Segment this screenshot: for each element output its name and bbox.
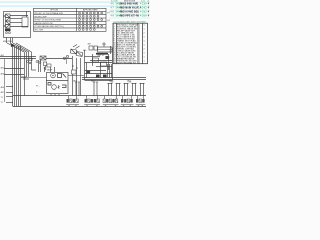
pump feed line 1: [50, 67, 52, 72]
svg-text:4WD KIT 4W: 4WD KIT 4W: [124, 1, 135, 3]
cv bus line 1: [85, 56, 101, 58]
highlight stripe right row 5: [109, 17, 150, 19]
wire left stub 3: [6, 96, 13, 98]
mid small valve cluster: [29, 58, 32, 61]
cv bus line 6: [85, 73, 113, 75]
wire right of block: [110, 46, 112, 54]
cv vertical 4: [86, 63, 88, 78]
svg-text:W70W : 4T700 W70 A-70WB: W70W : 4T700 W70 A-70WB: [34, 19, 61, 22]
parts list qty marks right col: [144, 24, 145, 62]
pilot valve box P1: [4, 12, 31, 38]
option table circles row 5: [79, 25, 103, 27]
valve circles below: [36, 61, 38, 63]
right feeder pair 4: [132, 83, 137, 96]
svg-text:1: 1: [144, 24, 145, 26]
svg-text:4B1: 4B1: [1, 55, 4, 57]
cluster circles: [66, 55, 68, 57]
wire center drop2: [76, 76, 78, 96]
pump dot: [52, 75, 53, 76]
svg-text:WITH PRE-HEAT KIT: WITH PRE-HEAT KIT: [117, 61, 137, 64]
relief valve RV1: [44, 62, 47, 70]
cv dark blob 2: [96, 75, 100, 78]
svg-text:4B8-P: 4B8-P: [47, 70, 53, 72]
svg-text:4-5 S46: 4-5 S46: [111, 1, 118, 3]
travel motor unit 1: [66, 96, 79, 106]
bundle L line 3: [16, 46, 18, 107]
revision list row 0 partial: [111, 1, 149, 3]
feeder lines 2: [94, 82, 97, 96]
wire pv vertical: [26, 11, 28, 17]
background sheet: [0, 0, 150, 110]
wire diagonal 3: [13, 43, 29, 52]
svg-text:4WD HI 4WD B(B): 4WD HI 4WD B(B): [120, 10, 140, 13]
pump circle: [51, 73, 56, 78]
cv left edge: [84, 50, 86, 80]
motor circle: [52, 85, 57, 90]
svg-text:4B9: 4B9: [88, 44, 91, 46]
travel motor unit 4: [121, 96, 134, 106]
wire center v1: [72, 56, 74, 70]
revision list row 4: [111, 14, 150, 17]
cv bus line 4: [96, 66, 112, 68]
travel motor unit 3: [103, 96, 119, 106]
pilot valve body blob: [5, 29, 11, 32]
wire pv out 1: [10, 15, 28, 17]
revision list row 2: [111, 6, 150, 9]
right feeder pair 2: [116, 83, 121, 96]
wire center h2: [46, 58, 72, 60]
svg-text:4-23(4: 4-23(4: [140, 3, 147, 5]
svg-text:WD-4W : 4T700 W70BA A 70W: WD-4W : 4T700 W70BA A 70W: [34, 12, 63, 15]
control valve manifold bar: [96, 53, 108, 55]
bundle L line 4: [18, 46, 20, 107]
feeder top ticks: [75, 81, 131, 83]
cv bus line 3: [85, 62, 113, 64]
pilot valve bottom circles: [6, 32, 8, 34]
wire center v3: [80, 58, 82, 76]
junction dot 2: [76, 67, 77, 68]
cv bus line 5: [85, 70, 107, 72]
mid cluster circle 2: [29, 62, 31, 64]
svg-text:T2: T2: [1, 102, 3, 104]
travel motor unit 5: [136, 96, 146, 106]
highlight stripe top 1: [0, 1, 150, 3]
junction blob: [11, 44, 15, 48]
wire left horiz 2: [0, 58, 36, 60]
bundle M jog 2: [23, 78, 29, 80]
cv sub valve 2: [101, 62, 107, 66]
svg-text:WD_70W: WD_70W: [34, 30, 43, 32]
junction dot 1: [72, 65, 73, 66]
wire right bus 2: [82, 79, 146, 81]
jog line to pump: [21, 77, 46, 79]
wire left stub 1: [6, 86, 13, 88]
revision list row 1: [111, 2, 150, 5]
small block mid: [72, 70, 77, 74]
svg-text:1: 1: [144, 56, 145, 58]
svg-text:T1: T1: [1, 97, 3, 99]
option table circles row 1: [79, 12, 103, 14]
wire pump to block: [68, 75, 85, 77]
svg-text:P1→: P1→: [36, 86, 40, 88]
option table circles row 2: [79, 15, 99, 17]
mid cluster circle 1: [27, 61, 29, 63]
wire box drop 1: [6, 38, 8, 44]
svg-text:2: 2: [144, 32, 145, 34]
wire left horiz 3: [4, 68, 24, 70]
svg-text:4-22: 4-22: [141, 1, 145, 3]
solenoid valve V2: [40, 56, 46, 60]
bundle M line 4: [31, 52, 33, 70]
bundle M line 3: [28, 52, 30, 77]
bundle M jog 1: [21, 76, 27, 78]
valve riser 1: [38, 60, 40, 72]
pilot sub box: [22, 17, 28, 27]
wire pv out 4: [10, 26, 28, 28]
option table circles row 6: [79, 29, 96, 31]
svg-text:4-25(3: 4-25(3: [140, 11, 147, 13]
wire left stub 2: [6, 92, 13, 94]
wire diagonal 2: [10, 43, 27, 52]
revision list row 3: [111, 10, 150, 13]
svg-text:4B3: 4B3: [1, 74, 4, 76]
svg-text:4WD PIPE KIT 4W: 4WD PIPE KIT 4W: [120, 14, 140, 17]
right feeder pair 1: [108, 83, 113, 96]
cv bottom edge: [85, 80, 113, 82]
svg-text:4B11: 4B11: [73, 81, 77, 83]
option table circles row 3: [79, 19, 103, 21]
svg-text:WD/WD-4WF: WD/WD-4WF: [34, 16, 47, 18]
parts list rows: [113, 23, 141, 64]
pilot valve spool stack: [6, 14, 11, 28]
highlight stripe top 2: [0, 5, 150, 7]
svg-text:1: 1: [144, 60, 145, 62]
filter marks: [48, 83, 51, 86]
pump side rect: [58, 74, 62, 78]
wire center drop3: [80, 76, 82, 96]
svg-text:4B7: 4B7: [1, 92, 4, 94]
wire left horiz 4: [4, 74, 24, 76]
bottom frame line: [13, 106, 146, 108]
valve riser 3: [44, 67, 46, 72]
left collector line: [4, 59, 6, 102]
wire right drop 1: [107, 64, 109, 78]
bundle L line 5: [20, 46, 22, 107]
pilot valve end port 2: [4, 25, 6, 27]
svg-text:1: 1: [144, 36, 145, 38]
pump mid line: [46, 80, 68, 82]
cv bus line 2: [90, 60, 112, 62]
cv dark blob 1: [87, 71, 91, 74]
motor zigzag: [58, 86, 59, 89]
valve bank inner line: [98, 49, 113, 51]
svg-text:T→: T→: [36, 92, 39, 94]
svg-text:4: 4: [148, 1, 149, 3]
center pilot cluster: [70, 45, 83, 57]
pump drains: [51, 94, 59, 96]
wire pv out 3: [10, 22, 22, 24]
wire pv out 2: [10, 18, 22, 20]
valve bank cell 2: [94, 46, 98, 50]
bundle L line 2: [14, 46, 16, 107]
bottom bus: [13, 95, 146, 97]
cv dark blob 3: [103, 75, 107, 78]
pump feed line 2: [54, 67, 56, 72]
wire right drop 2: [109, 64, 111, 78]
wire box drop 2: [10, 38, 12, 44]
svg-text:1: 1: [144, 28, 145, 30]
right feeder pair 3: [124, 83, 129, 96]
cv right edge: [112, 48, 114, 80]
option table row texts: [34, 12, 64, 32]
svg-text:1: 1: [144, 44, 145, 46]
svg-text:4B13: 4B13: [109, 81, 113, 83]
svg-text:4B14: 4B14: [127, 81, 131, 83]
valve bank port stem: [103, 45, 105, 47]
pilot valve end ports: [4, 15, 6, 17]
option table circles row 4: [79, 22, 96, 24]
valve riser 2: [40, 60, 42, 72]
valve bank top port circle: [103, 43, 105, 45]
highlight stripe right row 4: [109, 13, 150, 15]
valve bank body: [98, 47, 113, 52]
pump unit box: [47, 73, 69, 94]
svg-text:4B2: 4B2: [1, 68, 4, 70]
wire diagonal 1: [7, 43, 24, 52]
cluster stem: [66, 59, 68, 64]
svg-text:1: 1: [144, 52, 145, 54]
svg-text:GAUGE 4WDFLOW: GAUGE 4WDFLOW: [34, 22, 52, 25]
svg-text:1: 1: [144, 40, 145, 42]
wire left stub 4: [6, 102, 13, 104]
svg-text:4T70W GAUGE 4WD 4W/T70L): 4T70W GAUGE 4WD 4W/T70L): [34, 25, 64, 28]
pilot valve bottom circle 2: [9, 32, 11, 34]
cv dark blob top right: [106, 56, 109, 59]
svg-text:S4603-04B0 4WD: S4603-04B0 4WD: [120, 2, 139, 5]
small valve above pump: [47, 64, 51, 67]
svg-text:4B12: 4B12: [91, 81, 95, 83]
option table header text: [50, 9, 98, 12]
wire center drop1: [72, 74, 74, 96]
svg-text:4B4: 4B4: [1, 87, 4, 89]
svg-text:4WD MAIN VALVE A: 4WD MAIN VALVE A: [120, 6, 142, 9]
bundle M jog 3: [32, 69, 37, 71]
wire box drop 3: [12, 38, 14, 44]
cv sub valve 1: [93, 58, 99, 62]
parts list table frame: [113, 23, 148, 64]
cluster circle 2: [63, 57, 65, 59]
feeder lines 1: [76, 82, 79, 96]
bundle M line 2: [26, 52, 28, 77]
valve bank cell 1: [89, 46, 93, 50]
svg-text:2: 2: [144, 48, 145, 50]
bundle L line 1: [12, 46, 14, 107]
right feeder pair 5: [140, 83, 145, 96]
svg-text:OPTION: OPTION: [50, 10, 58, 12]
highlight stripe right row 3: [109, 9, 150, 11]
wire diagonal 4: [16, 43, 32, 52]
svg-text:4-26(4: 4-26(4: [140, 15, 147, 17]
wire right bus 1: [82, 77, 146, 79]
wire center v2: [76, 58, 78, 76]
valve circle 2: [39, 62, 41, 64]
svg-text:APPLIED PART: APPLIED PART: [83, 9, 98, 12]
wire right drop 3: [111, 64, 113, 78]
travel motor unit 2: [84, 96, 100, 106]
svg-text:4-24(2: 4-24(2: [140, 7, 147, 9]
pump side marks: [63, 74, 67, 78]
wire left horiz 1: [0, 56, 36, 58]
tank symbol in box: [62, 85, 66, 88]
cv vertical 1: [92, 54, 94, 66]
option table frame: [34, 8, 107, 31]
cv vertical 2: [100, 62, 102, 78]
bundle M line 1: [24, 52, 26, 96]
cv vertical 3: [108, 54, 110, 70]
